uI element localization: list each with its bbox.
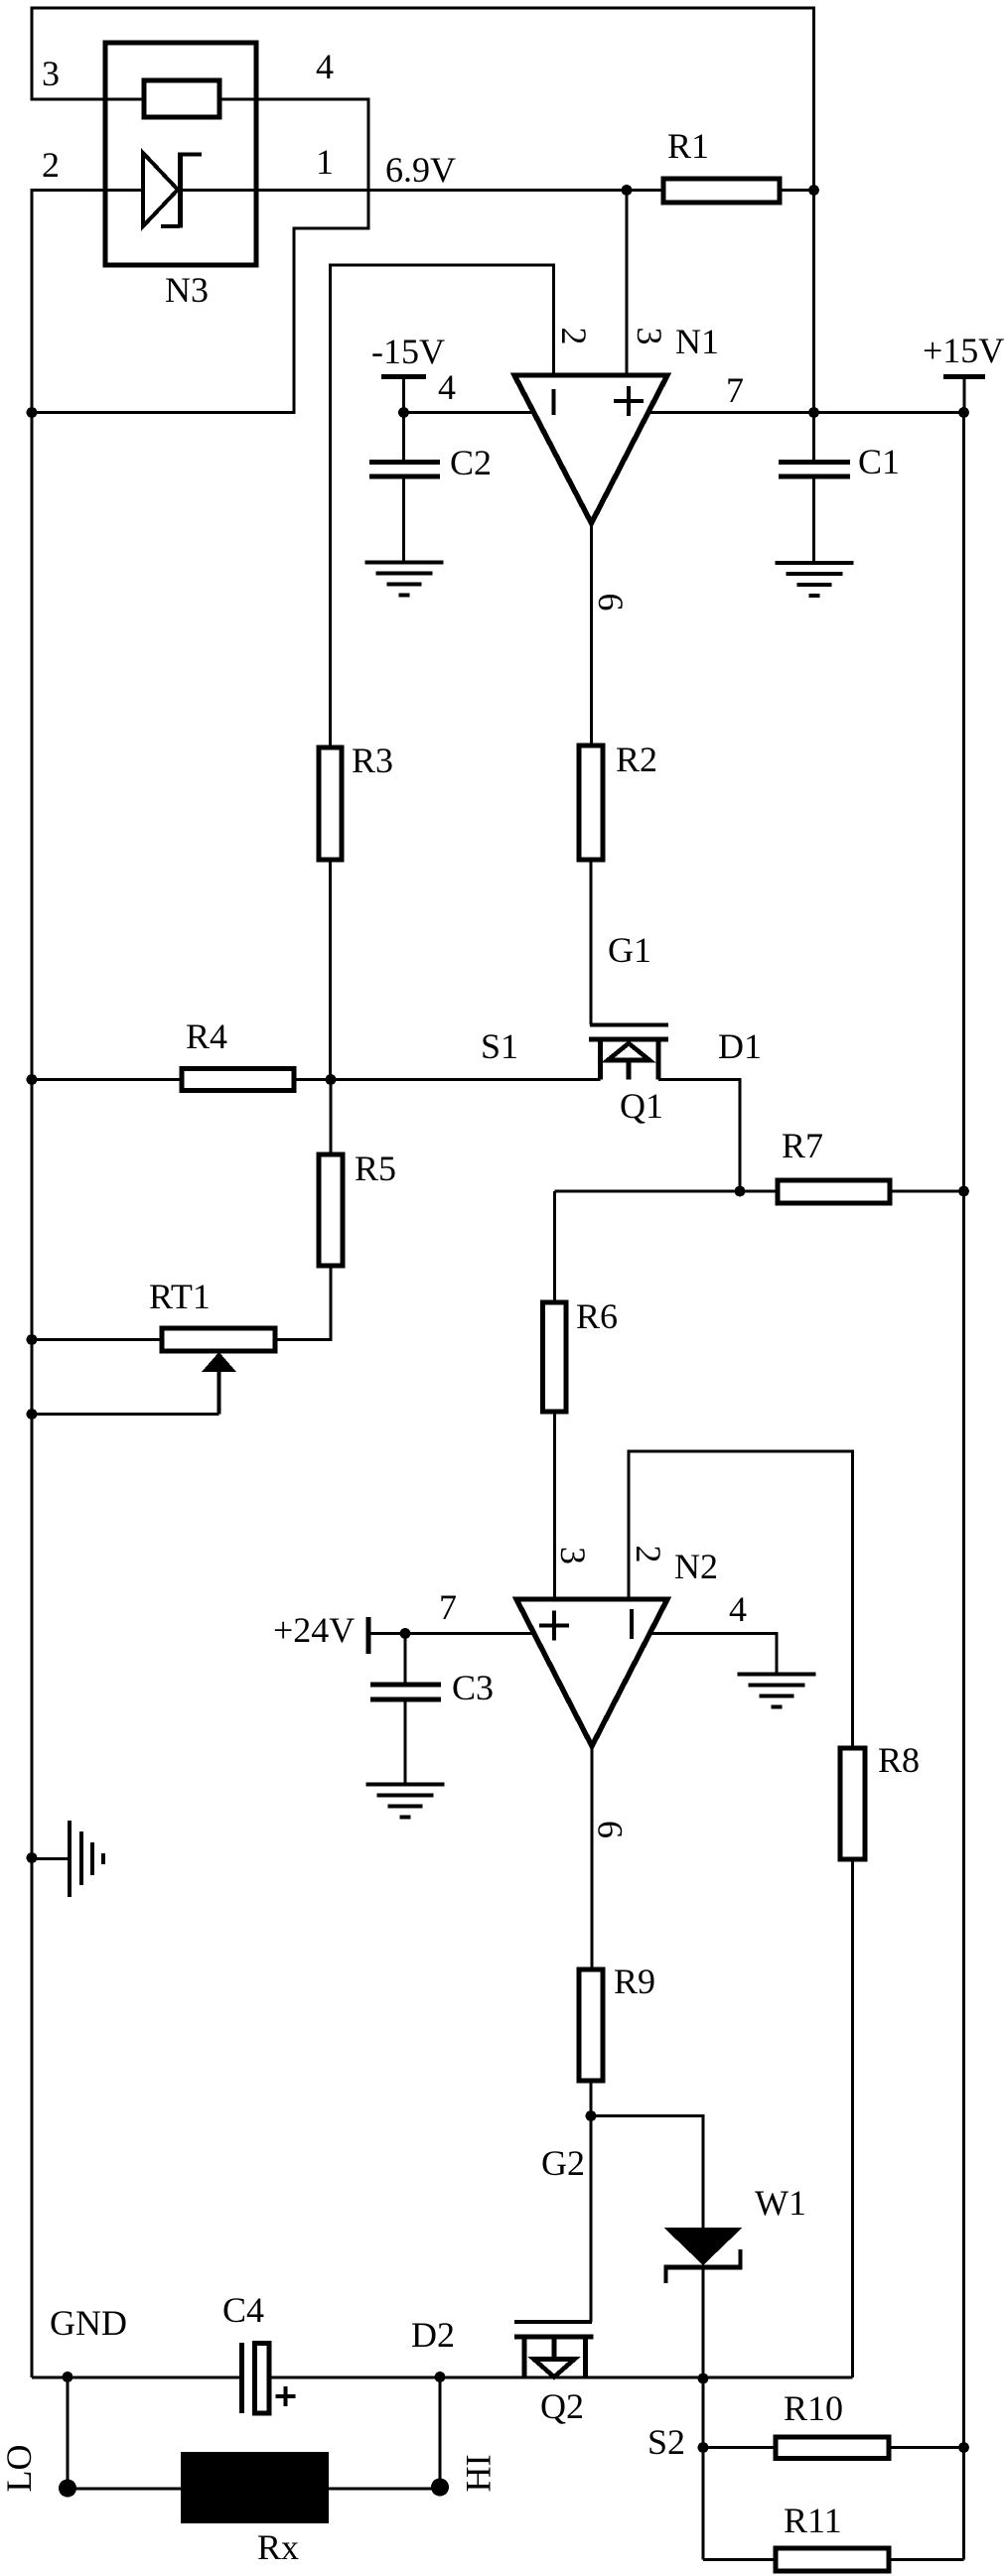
wire: N3 pin 2 lead and left rail down to bottom GND wire — [32, 191, 143, 2378]
N1 plus input mark — [614, 386, 644, 416]
N2 plus input mark — [539, 1611, 569, 1641]
svg-text:LO: LO — [0, 2445, 39, 2493]
resistor R7 — [778, 1180, 890, 1203]
wire: S2 row — [703, 2446, 964, 2449]
wire: N3 pin 3 lead, top bus, drop to R1 right — [32, 8, 814, 191]
svg-text:R3: R3 — [352, 741, 393, 780]
svg-text:W1: W1 — [755, 2183, 806, 2223]
svg-text:R11: R11 — [784, 2501, 842, 2540]
wire: R9 bottom through G2 node to Q2 gate — [589, 2081, 592, 2322]
svg-text:GND: GND — [50, 2303, 127, 2343]
svg-text:N1: N1 — [675, 322, 719, 361]
capacitor C1 — [812, 413, 815, 564]
wire: wiper to left rail — [32, 1413, 219, 1416]
wire: R4 to Q1 source (S1) — [294, 1078, 601, 1081]
svg-text:RT1: RT1 — [149, 1277, 211, 1316]
MOSFET Q1 — [590, 1023, 668, 1027]
wire: left rail to R4 — [32, 1078, 182, 1081]
svg-text:4: 4 — [316, 47, 334, 86]
svg-text:3: 3 — [553, 1547, 593, 1564]
capacitor C3 — [403, 1634, 406, 1785]
svg-text:R2: R2 — [616, 740, 657, 779]
wire: N2 pin 2 loop up and over to R8 — [629, 1451, 853, 1748]
wire: N1 output (pin 6) to R2 — [590, 523, 593, 746]
potentiometer RT1 — [162, 1328, 275, 1351]
svg-text:3: 3 — [630, 328, 669, 345]
wire: RT1 left to rail — [32, 1338, 162, 1341]
wire: LO to Rx — [68, 2487, 181, 2490]
wire: GND node down to LO — [66, 2377, 69, 2488]
svg-text:C1: C1 — [858, 442, 900, 481]
resistor R5 — [329, 1080, 332, 1155]
wire: +24V to N2 pin 7 — [368, 1632, 534, 1635]
wire: G2 node over to W1 — [591, 2116, 703, 2229]
svg-text:4: 4 — [438, 367, 456, 407]
wire: R1 leads — [627, 189, 814, 192]
svg-text:G2: G2 — [541, 2143, 585, 2183]
svg-text:S1: S1 — [481, 1026, 518, 1066]
resistor R3 — [319, 747, 342, 860]
wire: N3 pin 4 step down to left rail -V row — [32, 99, 368, 413]
C4 polarity plus — [276, 2386, 296, 2406]
N1 minus input mark — [552, 389, 556, 415]
node LO — [59, 2480, 76, 2498]
wire: R6 bottom to N2 pin 3 — [553, 1412, 556, 1599]
svg-text:Q1: Q1 — [620, 1086, 663, 1126]
resistor R11 — [776, 2548, 889, 2571]
svg-text:R6: R6 — [576, 1296, 618, 1336]
svg-text:4: 4 — [729, 1589, 747, 1629]
resistor R1 — [663, 179, 780, 203]
op-amp N2 — [516, 1599, 667, 1746]
wire: N2 output (pin 6) to R9 — [590, 1746, 593, 1969]
zener diode inside N3: anode triangle — [143, 153, 178, 226]
wire: N1 pin 2 loop from R3 top — [331, 265, 554, 747]
resistor R10 — [776, 2437, 889, 2459]
wire: R3 bottom to S1 node — [329, 860, 332, 1080]
wire: R8 bottom down to D2 wire — [851, 1859, 854, 2377]
junction dots — [622, 185, 633, 196]
wire: 6.9V node down to N1 pin 3 — [625, 191, 628, 376]
wire: N3 pin 1 net (6.9V) to R1 left — [180, 189, 627, 192]
svg-text:Q2: Q2 — [540, 2386, 584, 2426]
wire: bottom GND/D2 wire — [32, 2375, 853, 2378]
svg-text:6: 6 — [591, 1821, 631, 1838]
svg-text:C2: C2 — [450, 443, 492, 482]
wire: D2 node down to HI — [438, 2377, 441, 2488]
op-amp N1 — [514, 375, 667, 523]
svg-text:1: 1 — [316, 142, 334, 182]
wire: R5 bottom to RT1 right — [275, 1266, 331, 1340]
wire: +15V right rail — [962, 413, 965, 2560]
wire: Q1 drain (D1) down to R7 node — [658, 1080, 740, 1192]
svg-text:R8: R8 — [878, 1740, 920, 1780]
svg-text:+15V: +15V — [923, 331, 1004, 370]
wire: R2 to Q1 gate — [589, 860, 592, 1025]
svg-text:G1: G1 — [608, 930, 651, 970]
svg-text:D1: D1 — [718, 1026, 762, 1066]
ground (N2 pin 4) — [738, 1675, 816, 1707]
wire: N1 pin 4 to -15V node — [404, 411, 535, 414]
zener diode inside N3: cathode bar with hooks — [178, 153, 183, 228]
wire: R11 row — [703, 2558, 964, 2561]
wire: N2 pin 4 to ground — [649, 1634, 777, 1675]
ground (below C3) — [366, 1785, 445, 1818]
svg-text:7: 7 — [726, 370, 744, 410]
svg-text:6.9V: 6.9V — [385, 150, 456, 190]
svg-text:2: 2 — [629, 1546, 668, 1563]
capacitor C4 (polarized) — [239, 2343, 244, 2413]
svg-text:R1: R1 — [667, 126, 709, 166]
svg-text:C4: C4 — [222, 2290, 264, 2330]
MOSFET Q2 — [514, 2320, 592, 2324]
resistor R4 — [182, 1069, 294, 1091]
svg-text:R7: R7 — [782, 1126, 823, 1165]
svg-text:D2: D2 — [411, 2315, 455, 2355]
svg-text:HI: HI — [459, 2455, 499, 2493]
svg-text:N2: N2 — [674, 1547, 718, 1586]
resistor Rx (sensor) — [181, 2452, 329, 2523]
svg-text:3: 3 — [42, 54, 60, 93]
svg-text:R10: R10 — [784, 2388, 843, 2428]
node HI — [431, 2479, 449, 2497]
wire: Rx to HI — [329, 2487, 440, 2490]
svg-text:R4: R4 — [186, 1017, 227, 1056]
svg-text:S2: S2 — [647, 2422, 685, 2462]
wire: N1 pin 7 to +15V rail — [648, 411, 964, 414]
svg-text:+24V: +24V — [273, 1610, 355, 1650]
resistor inside N3 (pins 3-4) — [144, 80, 219, 117]
resistor R8 — [840, 1748, 865, 1859]
svg-text:2: 2 — [42, 145, 60, 185]
svg-text:R5: R5 — [355, 1149, 396, 1188]
svg-text:2: 2 — [554, 328, 594, 345]
resistor R2 — [579, 746, 603, 860]
RT1 wiper arrow — [202, 1352, 236, 1372]
resistor R6 — [553, 1191, 556, 1302]
svg-text:7: 7 — [439, 1587, 457, 1627]
svg-text:C3: C3 — [452, 1668, 494, 1707]
N2 minus input mark — [630, 1609, 634, 1639]
IC N3 package outline — [105, 43, 256, 265]
wire: W1 cathode down through D2 wire to S2 and R11 — [701, 2267, 704, 2560]
ground (left rail) — [32, 1857, 70, 1860]
svg-text:-15V: -15V — [371, 332, 445, 371]
svg-text:R9: R9 — [614, 1962, 655, 2001]
wire: top bus vertical from R1 right down to +15V row — [812, 191, 815, 413]
resistor R9 — [579, 1969, 603, 2081]
svg-text:N3: N3 — [165, 270, 209, 310]
zener diode W1 — [664, 2228, 743, 2265]
svg-text:6: 6 — [591, 594, 631, 611]
capacitor C2 — [402, 413, 405, 563]
wire: R7 row — [555, 1189, 964, 1192]
ground (below C2) — [365, 563, 444, 596]
svg-text:Rx: Rx — [257, 2527, 299, 2567]
ground (below C1) — [776, 563, 854, 596]
